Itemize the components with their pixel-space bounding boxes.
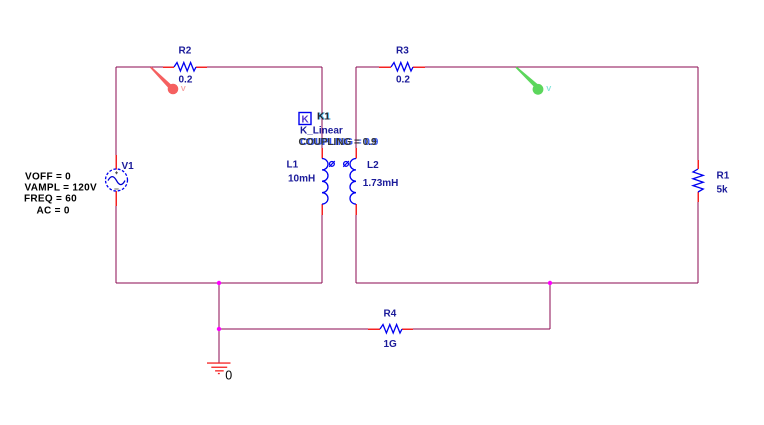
svg-text:V: V bbox=[546, 84, 551, 93]
junction node at right bottom rail bbox=[548, 281, 552, 285]
wire left rail below V1 bbox=[115, 206, 117, 283]
wire top-right rail (right of R3) bbox=[425, 66, 698, 68]
resistor R3 bbox=[379, 63, 425, 72]
K1 attribute COUPLING = 0.9 bbox=[299, 137, 379, 148]
wire R4 rail left bbox=[219, 328, 368, 330]
voltage probe (red) on R2 output bbox=[150, 67, 186, 95]
svg-text:R4: R4 bbox=[384, 309, 397, 320]
wire ground stub bbox=[218, 329, 220, 363]
wire bottom-left rail bbox=[116, 282, 322, 284]
svg-text:L2: L2 bbox=[367, 160, 379, 171]
L1 phase dot bbox=[329, 161, 335, 167]
svg-text:10mH: 10mH bbox=[288, 174, 315, 185]
svg-text:COUPLING = 0.9: COUPLING = 0.9 bbox=[299, 137, 378, 148]
wire bottom-right rail bbox=[356, 282, 698, 284]
svg-text:K1: K1 bbox=[317, 112, 330, 123]
voltage source V1 bbox=[106, 155, 128, 206]
wire top-right rail (left of R3) bbox=[356, 66, 379, 68]
minus mark bbox=[114, 188, 118, 190]
svg-text:VOFF = 0: VOFF = 0 bbox=[25, 172, 71, 183]
wire L1 branch upper bbox=[321, 67, 323, 148]
wire L2 branch lower bbox=[355, 215, 357, 283]
wire R4 riser bbox=[549, 283, 551, 329]
svg-text:0.2: 0.2 bbox=[396, 75, 410, 86]
L2 phase dot bbox=[343, 161, 349, 167]
svg-text:1.73mH: 1.73mH bbox=[363, 178, 399, 189]
inductor L1 bbox=[322, 148, 328, 215]
svg-text:FREQ = 60: FREQ = 60 bbox=[24, 194, 77, 205]
svg-text:5k: 5k bbox=[717, 185, 729, 196]
resistor R2 bbox=[163, 63, 207, 72]
svg-text:R2: R2 bbox=[179, 46, 192, 57]
wire top-left rail (left of R2) bbox=[116, 66, 163, 68]
wire right rail above R1 bbox=[697, 67, 699, 160]
svg-text:K_Linear: K_Linear bbox=[300, 126, 343, 137]
plus mark bbox=[115, 171, 118, 174]
svg-text:VAMPL = 120V: VAMPL = 120V bbox=[25, 183, 97, 194]
wire R4 rail right bbox=[413, 328, 550, 330]
inductor L2 bbox=[350, 148, 356, 215]
ground 0 symbol bbox=[207, 362, 231, 374]
voltage probe (green) on R3 output bbox=[516, 67, 552, 95]
svg-text:R1: R1 bbox=[717, 171, 730, 182]
junction node at left bottom rail bbox=[217, 281, 221, 285]
wire right rail below R1 bbox=[697, 202, 699, 283]
resistor R1 bbox=[693, 160, 703, 202]
svg-text:R3: R3 bbox=[396, 46, 409, 57]
wire ground branch bbox=[218, 283, 220, 329]
svg-text:V: V bbox=[181, 84, 186, 93]
junction node at R4 left bbox=[217, 327, 221, 331]
wire L2 branch upper bbox=[355, 67, 357, 148]
svg-text:1G: 1G bbox=[384, 339, 398, 350]
svg-text:V1: V1 bbox=[122, 161, 135, 172]
wire L1 branch lower bbox=[321, 215, 323, 283]
svg-text:0: 0 bbox=[225, 369, 232, 383]
wire left rail above V1 bbox=[115, 67, 117, 155]
svg-text:AC = 0: AC = 0 bbox=[37, 206, 70, 217]
svg-text:L1: L1 bbox=[287, 160, 299, 171]
svg-text:K: K bbox=[302, 115, 310, 126]
resistor R4 bbox=[368, 325, 413, 334]
wire top-left rail (right of R2) bbox=[207, 66, 322, 68]
coupling symbol K1 bbox=[299, 113, 311, 126]
